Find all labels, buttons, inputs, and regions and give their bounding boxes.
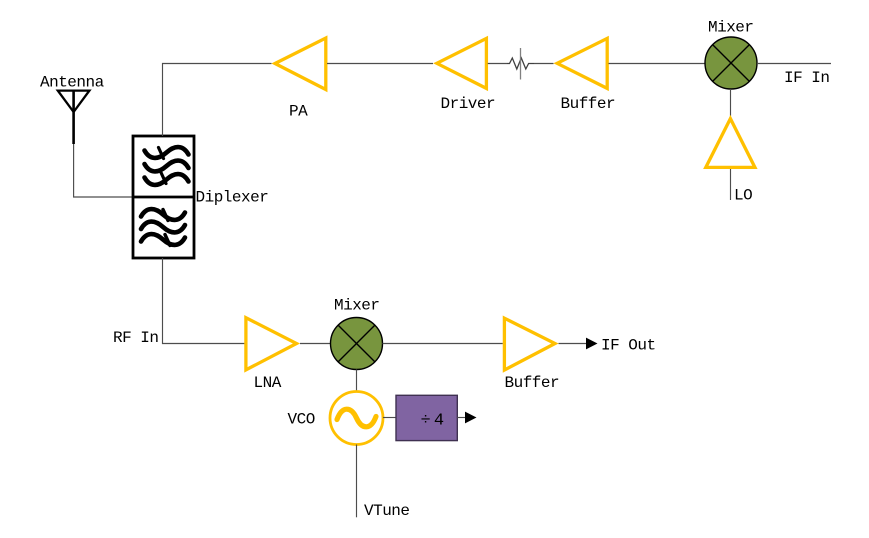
resistor [507, 48, 534, 80]
antenna [58, 91, 90, 144]
wire LNA to mixer [300, 343, 331, 345]
wire resistor to Buffer [534, 63, 554, 65]
amplifier LNA [246, 318, 297, 370]
wire VCO to divider [383, 417, 396, 419]
svg-text:Buffer: Buffer [561, 95, 616, 113]
mixer RX [331, 318, 383, 370]
amplifier Buffer TX [557, 38, 607, 88]
svg-text:VTune: VTune [364, 502, 410, 520]
wire Buffer to mixer [609, 63, 706, 65]
wire antenna to diplexer [74, 144, 133, 197]
svg-text:RF In: RF In [113, 329, 159, 347]
svg-text:Mixer: Mixer [334, 297, 380, 315]
svg-text:LNA: LNA [254, 374, 282, 392]
wire PA to Driver [327, 63, 433, 65]
wire diplexer to PA [163, 64, 272, 137]
oscillator VCO [330, 392, 383, 445]
wire mixer to Buffer RX [383, 343, 503, 345]
svg-text:Driver: Driver [441, 95, 496, 113]
amplifier LO [706, 119, 755, 168]
svg-text:IF Out: IF Out [601, 337, 656, 355]
svg-text:IF In: IF In [784, 69, 830, 87]
svg-text:Mixer: Mixer [708, 19, 754, 37]
divider box [396, 395, 457, 440]
wire VCO to VTune [356, 445, 358, 518]
amplifier PA [275, 38, 326, 90]
mixer TX [705, 37, 757, 89]
svg-text:VCO: VCO [288, 411, 315, 429]
arrowhead IF Out [586, 338, 598, 350]
svg-text:LO: LO [734, 187, 752, 205]
wire diplexer to LNA [163, 258, 246, 344]
wire IF In [757, 63, 831, 65]
TX filter [145, 147, 189, 185]
svg-text:Buffer: Buffer [505, 374, 560, 392]
svg-text:Antenna: Antenna [40, 74, 105, 92]
wire LO stub [730, 169, 732, 200]
RX filter [141, 209, 185, 245]
wire divider out [457, 417, 465, 419]
wire Buffer to IF Out [559, 343, 587, 345]
svg-text:PA: PA [289, 103, 308, 121]
amplifier Buffer RX [504, 318, 555, 370]
svg-text:Diplexer: Diplexer [196, 189, 269, 207]
wire mixer to LO [730, 89, 732, 116]
arrowhead divider out [465, 412, 477, 424]
wire mixer to VCO [356, 370, 358, 392]
amplifier Driver [437, 38, 487, 88]
wire Driver to resistor [488, 63, 507, 65]
diplexer box [133, 136, 194, 258]
